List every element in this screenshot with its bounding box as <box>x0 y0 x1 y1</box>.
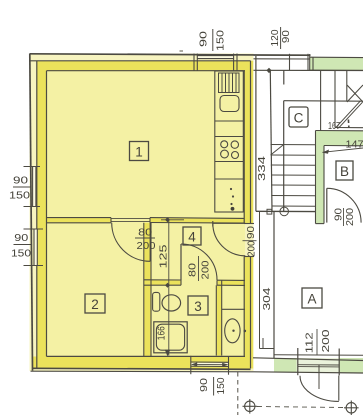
svg-text:150: 150 <box>11 249 32 260</box>
door1 jambs <box>110 218 112 223</box>
upper flight tread vertical 2 <box>334 70 336 127</box>
stair top interior line <box>254 69 363 71</box>
door hall/bath swing arc <box>181 244 217 280</box>
wall bath/niche vertical lines <box>215 285 217 355</box>
wall band left (yellow) <box>37 61 47 368</box>
upper flight tread vertical 1 <box>320 70 322 130</box>
dim label 90/200 room B door <box>334 207 357 226</box>
svg-text:150: 150 <box>216 29 227 51</box>
wall hall/bath horizontal lines <box>144 279 181 281</box>
window bottom glazing <box>191 361 229 363</box>
svg-text:1: 1 <box>135 145 143 160</box>
svg-text:3: 3 <box>194 299 202 314</box>
stair X diagonal 2 <box>347 85 363 102</box>
door hall/bath jambs <box>180 280 182 285</box>
niche washbasin oval <box>225 319 240 343</box>
wall band right upper (yellow) <box>244 61 253 224</box>
svg-text:200: 200 <box>137 241 156 252</box>
upper flight landing line <box>335 127 363 129</box>
window left 2 glazing <box>33 229 35 266</box>
entrance door leaf <box>213 222 246 224</box>
svg-text:90: 90 <box>14 233 29 244</box>
stairwell left wall line <box>255 56 257 211</box>
room C / landing horizontal line <box>284 100 363 103</box>
top wall interior line <box>47 70 246 72</box>
svg-text:80: 80 <box>188 262 199 277</box>
stair square marker <box>267 209 272 214</box>
kitchen dots <box>230 188 234 205</box>
kitchen counter divider 4 <box>215 178 244 180</box>
dimension line 125/166 vertical <box>168 220 170 356</box>
door A thin lines across opening <box>298 364 339 366</box>
room A bottom wall outline top <box>253 358 363 361</box>
svg-text:166: 166 <box>156 326 167 340</box>
svg-text:90: 90 <box>334 207 345 221</box>
junction dot on hall wall <box>231 207 235 211</box>
stair circle marker <box>280 207 289 216</box>
niche basin dot <box>232 330 234 332</box>
window left 2 tick bottom <box>24 265 44 267</box>
svg-text:90: 90 <box>199 30 210 47</box>
interior pale fill <box>47 71 246 357</box>
right wall interior line upper <box>243 71 245 224</box>
green wall room A bottom <box>274 358 363 373</box>
flat footprint pale yellow <box>30 54 254 372</box>
svg-text:90: 90 <box>281 30 292 44</box>
kitchen counter divider 2 <box>215 136 244 138</box>
dim label 80/200 hall-bath door <box>188 256 212 281</box>
kitchen counter divider 3 <box>215 161 244 163</box>
svg-text:200: 200 <box>247 240 258 256</box>
room B top wall outline <box>316 131 363 224</box>
door hall/bath leaf <box>180 244 182 280</box>
wall band bottom (yellow) <box>33 357 251 369</box>
dim label 90/200 entrance <box>243 225 258 256</box>
stair direction double diagonal <box>336 101 361 128</box>
niche wall dot <box>244 330 247 333</box>
room B dimension leader 147 <box>323 148 363 152</box>
room C corner vertical <box>283 101 285 212</box>
survey marker left <box>243 399 258 414</box>
door A swing arc <box>300 376 339 402</box>
dimension diamond middle <box>165 283 170 288</box>
stair winder diagonal <box>271 145 284 156</box>
kitchen dish rack <box>219 73 240 93</box>
svg-text:90: 90 <box>13 176 29 187</box>
stair short tick <box>283 70 285 84</box>
window bottom jamb ticks <box>190 356 192 374</box>
outer wall line bottom2 <box>31 370 254 373</box>
dimension arrow bottom <box>165 350 170 357</box>
wall room1/hall lower line <box>150 222 244 225</box>
dimension diamond top <box>165 217 170 222</box>
dim label 120/90 top <box>270 27 292 49</box>
svg-text:80: 80 <box>138 228 153 239</box>
room label 1 <box>130 142 149 161</box>
survey marker right <box>344 401 359 415</box>
outer wall line top <box>30 54 311 55</box>
door A jamb ticks <box>297 348 299 375</box>
bottom wall interior line <box>47 355 246 357</box>
right wall outer line upper <box>250 61 252 224</box>
window left 1 glazing <box>32 167 34 207</box>
svg-text:120: 120 <box>270 29 281 46</box>
right wall interior line lower <box>243 257 245 357</box>
wall room1/hall upper line <box>150 217 244 220</box>
dim label 90/150 left window1 <box>9 176 31 202</box>
wall band right lower (yellow) <box>244 257 253 369</box>
room A bottom wall outline bottom <box>253 372 363 373</box>
wall band top (yellow) <box>37 61 251 71</box>
green wall room B left <box>316 146 325 224</box>
kitchen counter divider 1 <box>215 120 244 122</box>
left wall second line <box>36 61 38 369</box>
room B wall bottom cap <box>316 223 325 225</box>
upper flight tread vertical 3 <box>346 70 348 101</box>
kitchen sink <box>220 96 239 112</box>
stair dash marks <box>347 120 349 124</box>
kitchen counter outline <box>215 71 244 212</box>
dim label 80/200 door1 <box>135 228 156 253</box>
green wall top right (neighbor) <box>310 57 363 70</box>
white gap of door in A bottom wall <box>297 358 340 373</box>
svg-text:B: B <box>340 164 349 179</box>
wall room2/hall vertical lines <box>143 223 145 357</box>
outer wall line bottom1 <box>33 368 251 369</box>
right wall outer line lower <box>250 256 252 368</box>
window left 1 tick top <box>24 166 41 168</box>
wall room1/room2: lower line left part <box>47 222 112 224</box>
window top (90/150) jamb ticks <box>193 54 195 71</box>
entrance door jamb tick <box>212 221 214 227</box>
room label 2 <box>85 294 105 313</box>
stair treads lower flight <box>271 145 316 207</box>
green wall room B top <box>316 131 363 146</box>
svg-text:334: 334 <box>257 155 268 181</box>
window stair mullion ticks <box>289 54 291 71</box>
toilet tank <box>153 292 160 311</box>
bathtub outer <box>154 322 187 353</box>
survey marker dashed vertical <box>237 372 239 415</box>
room A left wall line <box>273 211 275 358</box>
dim label 90/150 left window2 <box>11 233 32 260</box>
dim label 112/200 room A door <box>304 329 332 355</box>
room label C <box>289 107 308 127</box>
svg-text:147: 147 <box>346 140 363 151</box>
svg-text:A: A <box>307 292 316 307</box>
wall band room2/hall divider vertical (yellow) <box>144 223 151 357</box>
window left 2 tick top <box>24 228 44 230</box>
svg-text:90: 90 <box>199 377 210 392</box>
stair X diagonal 1 <box>347 85 363 102</box>
svg-text:2: 2 <box>91 297 99 312</box>
room B door swing arc <box>327 188 361 222</box>
green wall left end caps <box>309 54 311 70</box>
entrance door swing arc <box>213 223 246 256</box>
window glazing pale strips <box>33 167 36 206</box>
window left 1 tick bottom <box>24 206 41 208</box>
svg-text:125: 125 <box>159 244 170 269</box>
svg-text:200: 200 <box>321 329 332 353</box>
wall band hall/bath divider horizontal (yellow) <box>144 280 181 285</box>
top wall second line <box>30 60 251 62</box>
svg-text:90: 90 <box>246 225 257 239</box>
tiny mark above top wall <box>180 50 184 51</box>
green wall top right outline <box>310 56 363 58</box>
niche divider line <box>222 308 245 310</box>
room A step lines <box>260 348 275 350</box>
wall band bath/niche divider vertical (yellow) <box>216 285 221 355</box>
room B door leaf <box>326 188 328 222</box>
stair bottom line <box>256 210 316 212</box>
door1 swing arc <box>112 223 151 261</box>
window top glazing <box>197 55 233 57</box>
bathtub inner <box>156 324 184 350</box>
svg-text:150: 150 <box>216 377 227 394</box>
room label A <box>302 288 322 308</box>
svg-text:150: 150 <box>9 191 31 202</box>
bottom window dim arrows <box>192 363 228 365</box>
svg-text:200: 200 <box>345 208 356 226</box>
kitchen stove burners <box>221 141 239 159</box>
entrance opening ticks <box>244 223 254 225</box>
wall room1/room2: upper line left part <box>47 217 112 219</box>
dimension tick top bar <box>161 219 184 221</box>
svg-text:167: 167 <box>328 121 340 132</box>
room label B <box>336 161 353 180</box>
left wall interior line <box>46 71 48 357</box>
room A interior bottom line <box>274 354 363 356</box>
svg-text:112: 112 <box>304 332 315 354</box>
survey dashed horizontal <box>257 407 344 408</box>
svg-text:304: 304 <box>262 287 273 311</box>
room B left wall outline <box>315 131 317 224</box>
room label 3 <box>188 296 208 315</box>
dim label 90/150 bottom window <box>199 377 227 396</box>
toilet bowl <box>162 295 181 311</box>
door1 leaf (room1 to room2) <box>149 223 151 261</box>
dim label 90/150 top <box>199 29 227 51</box>
stair diamond marker <box>266 68 271 73</box>
door1 opening thin lines <box>111 218 150 220</box>
room A dim extension line <box>259 211 261 348</box>
stair stringer vertical <box>270 70 272 211</box>
window stair (120/90) glazing <box>254 54 310 56</box>
room label 4 <box>183 227 201 245</box>
svg-text:C: C <box>294 111 304 126</box>
outer wall line left <box>30 54 33 371</box>
svg-text:200: 200 <box>201 260 212 279</box>
door A leaf <box>338 376 340 401</box>
wall band room1/room2 divider (yellow) <box>47 218 112 223</box>
svg-text:4: 4 <box>188 230 196 245</box>
